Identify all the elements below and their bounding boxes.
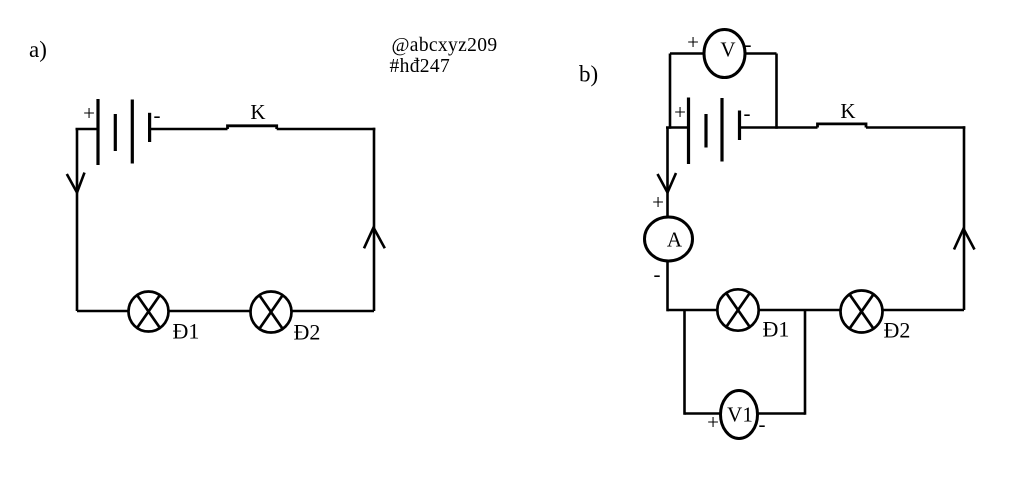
svg-text:b): b) (579, 62, 598, 87)
svg-text:+: + (687, 30, 699, 54)
svg-text:-: - (654, 262, 661, 286)
wire: b battery to switch (740, 126, 818, 129)
wire: a battery to switch (150, 128, 228, 131)
svg-text:V1: V1 (727, 403, 753, 427)
svg-text:-: - (745, 32, 752, 56)
svg-text:-: - (744, 101, 751, 125)
svg-text:+: + (674, 100, 686, 124)
wire: b V right horizontal (743, 52, 777, 55)
wire: b V1 branch right vertical (804, 310, 807, 415)
wire: a switch to top-right corner (277, 128, 376, 131)
lamp Đ2 (circuit a) (251, 292, 292, 333)
svg-text:V: V (720, 38, 735, 62)
current arrow down (circuit a) (67, 173, 85, 193)
svg-text:+: + (707, 410, 719, 434)
lamp Đ1 (circuit b) (717, 289, 758, 330)
wire: a right vertical (373, 128, 376, 311)
svg-text:Đ2: Đ2 (884, 318, 911, 343)
svg-text:+: + (652, 190, 664, 214)
wire: b V1 branch bottom-right horizontal (758, 412, 806, 415)
battery BA1 (98, 99, 150, 165)
svg-text:K: K (840, 99, 855, 123)
switch K (circuit b) (818, 124, 867, 128)
svg-text:A: A (667, 228, 683, 252)
wire: b left vertical to ammeter (666, 128, 669, 219)
svg-text:Đ1: Đ1 (173, 319, 200, 344)
wire: b V1 branch left vertical (683, 310, 686, 415)
voltmeter V1 (721, 391, 758, 439)
svg-text:@abcxyz209: @abcxyz209 (392, 35, 498, 56)
wire: b V left vertical (669, 54, 672, 129)
wire: b switch to top-right corner (866, 126, 965, 129)
svg-text:-: - (759, 412, 766, 436)
svg-text:Đ2: Đ2 (294, 320, 321, 345)
voltmeter V (704, 30, 745, 78)
switch K (circuit a) (228, 126, 277, 129)
svg-text:+: + (83, 101, 95, 125)
lamp Đ1 (circuit a) (129, 292, 169, 332)
current arrow up (circuit a) (364, 228, 385, 249)
wire: a top-left stub (76, 128, 99, 131)
ammeter A (645, 217, 693, 261)
wire: b junction stub to battery (666, 126, 689, 129)
wire: b ammeter to bottom corner (666, 260, 669, 311)
svg-text:#hđ247: #hđ247 (390, 56, 451, 77)
lamp Đ2 (circuit b) (841, 291, 883, 333)
current arrow down (circuit b) (658, 173, 677, 193)
wire: b V right vertical (775, 54, 778, 129)
wire: b V left horizontal (670, 52, 706, 55)
svg-text:K: K (250, 100, 265, 124)
svg-text:a): a) (29, 37, 47, 62)
battery BA2 (689, 98, 740, 165)
current arrow up (circuit b) (954, 229, 975, 250)
wire: b bottom (668, 309, 965, 312)
svg-text:-: - (154, 103, 161, 127)
wire: b right vertical (963, 126, 966, 310)
wire: a bottom (77, 310, 374, 313)
svg-text:Đ1: Đ1 (763, 317, 790, 342)
wire: b V1 branch bottom-left horizontal (685, 412, 722, 415)
wire: a left vertical (76, 129, 79, 311)
